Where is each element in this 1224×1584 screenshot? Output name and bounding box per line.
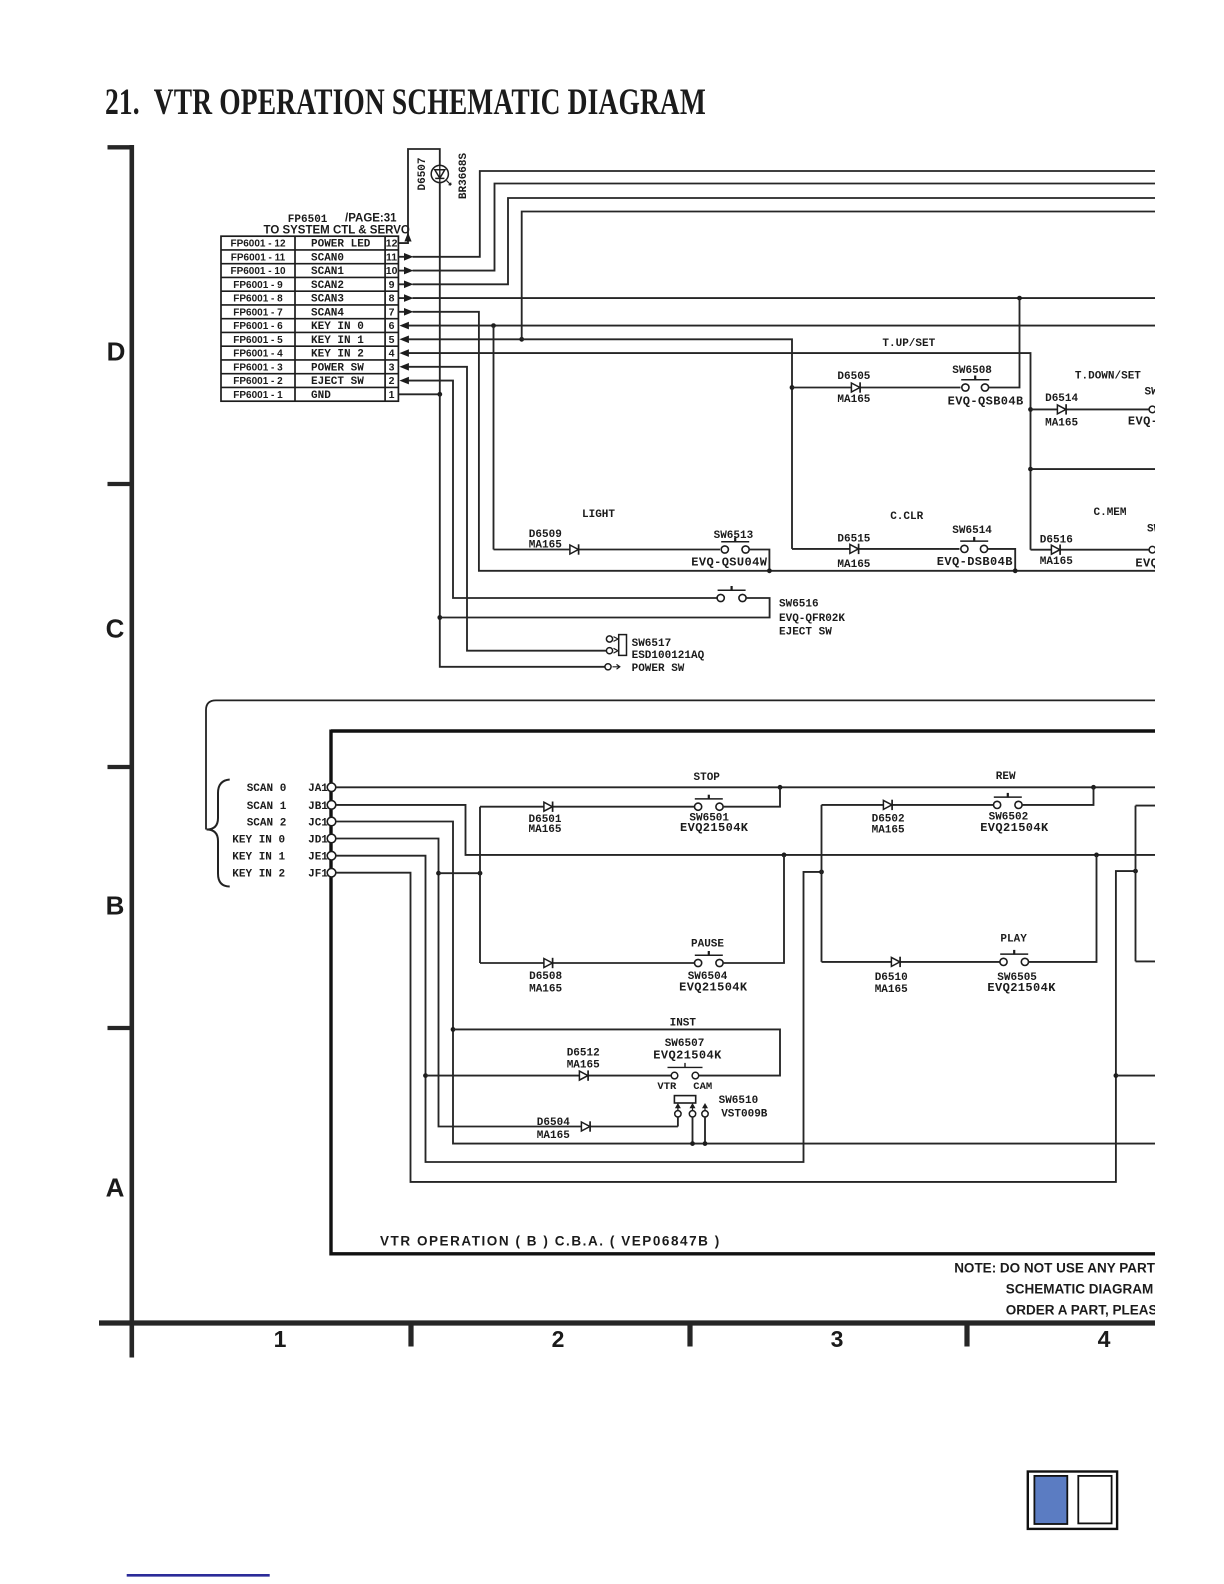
wire PAUSE row [480,962,695,964]
svg-text:BR3668S: BR3668S [458,153,470,200]
svg-text:POWER SW: POWER SW [632,663,685,675]
svg-text:JF1: JF1 [308,869,328,881]
wire C.MEM row [1031,549,1149,551]
switch SW6501 STOP [695,795,724,811]
svg-text:D6510: D6510 [875,972,908,984]
svg-text:SCAN0: SCAN0 [311,252,344,264]
svg-text:C: C [106,614,125,644]
wire KEY IN 1 to T.UP/SET and C.CLR [522,339,792,549]
junction KEY IN 2 / D6514 feed [1028,407,1033,412]
svg-text:REW: REW [996,771,1016,783]
SW6510 contact 3 [702,1111,708,1117]
svg-text:21. VTR OPERATION SCHEMATIC D: 21. VTR OPERATION SCHEMATIC DIAGRAM [105,82,706,123]
wire JD1 KEY IN 0 row [336,839,678,1127]
wire SW6510 c3 down to JC1 line [704,1117,706,1144]
svg-text:FP6001 - 10: FP6001 - 10 [230,266,285,277]
arrow out pin 9 [404,281,414,289]
wire SW6514 output to SCAN4 line [987,549,1015,571]
switch SW6502 REW [994,793,1023,809]
wire JB1 SCAN1 row [336,805,1155,855]
SW6517 bottom contact [606,648,612,654]
arrow in pin 6 [399,322,409,330]
wire INST row from JE1 [426,1075,672,1077]
svg-text:8: 8 [389,293,395,305]
wire SCAN1 net [413,184,1156,271]
svg-text:D6514: D6514 [1045,393,1078,405]
SW6517 top contact [606,636,612,642]
junction KEY IN 1 [519,337,524,342]
wire pin12 to LED anode [398,149,439,243]
svg-text:STOP: STOP [694,772,721,784]
svg-text:MA165: MA165 [567,1060,600,1072]
junction right column feed [1133,869,1138,874]
diode D6501 [544,802,553,812]
SW6510 contact arrow at x=692.5 [692,1105,694,1111]
wire SW6516 return to GND [440,598,770,618]
junction GND / LED cathode [437,392,442,397]
svg-text:MA165: MA165 [875,984,908,996]
wire SCAN0 net [413,171,1156,257]
LED D6507 BR3668S [431,165,451,185]
svg-text:FP6001 - 5: FP6001 - 5 [233,335,283,346]
margin top tick [108,145,135,149]
SW6510 contact arrow at x=705.0 [704,1105,706,1111]
pin 7 stub [398,311,404,313]
junction JB1 / SW6505 output [1094,853,1099,858]
wire LIGHT row [494,549,721,551]
switch SW6505 PLAY [1000,950,1029,966]
svg-text:SCHEMATIC DIAGRAM WH: SCHEMATIC DIAGRAM WH [1006,1282,1180,1297]
switch SW6508 T.UP/SET [961,376,989,392]
slide switch SW6510 body [674,1096,695,1103]
svg-text:MA165: MA165 [1040,556,1073,568]
svg-text:4: 4 [389,348,395,360]
wire STOP/PAUSE feed vertical [479,807,481,963]
svg-text:JC1: JC1 [308,817,328,829]
svg-text:ORDER A PART, PLEASE U: ORDER A PART, PLEASE U [1006,1303,1180,1318]
svg-text:3: 3 [389,361,395,373]
pin 8 stub [398,297,404,299]
svg-text:MA165: MA165 [837,559,870,571]
footer blue page square [1034,1476,1067,1524]
POWER SW contact [605,664,611,670]
svg-text:KEY IN 1: KEY IN 1 [232,852,285,864]
node JC1 [327,817,336,826]
svg-text:TO SYSTEM CTL & SERVO: TO SYSTEM CTL & SERVO [264,225,410,237]
svg-text:D6505: D6505 [837,371,870,383]
svg-text:1: 1 [389,389,395,401]
wire SW6513 output to SCAN4 line [749,550,770,571]
wire C.CLR row [792,548,960,550]
wire right column top row (clipped) [1136,805,1156,807]
svg-text:FP6001 - 3: FP6001 - 3 [233,362,283,373]
lower board thick box left edge [329,730,332,1256]
svg-text:T.DOWN/SET: T.DOWN/SET [1075,370,1141,382]
arrow out pin 7 [404,308,414,316]
svg-text:C.CLR: C.CLR [890,511,923,523]
node JA1 [327,783,336,792]
svg-text:EJECT SW: EJECT SW [311,376,364,388]
svg-text:4: 4 [1098,1326,1111,1352]
SW6510 contact arrow at x=677.9 [677,1105,679,1111]
junction JB1 / SW6504 output [782,853,787,858]
arrow in pin 2 [399,377,409,385]
svg-text:5: 5 [389,334,395,346]
diode D6515 [850,544,859,554]
svg-text:JA1: JA1 [308,783,328,795]
lower board thick box bottom edge [331,1252,1155,1255]
switch SW6516 EJECT [717,586,746,602]
diode D6502 [883,800,892,810]
svg-text:SW6514: SW6514 [952,525,992,537]
wire SW6505 output up to JB1 [1028,855,1096,962]
svg-text:D6502: D6502 [872,814,905,826]
wire SW6502 output up to JA1 [1022,787,1094,805]
wire pin 5 KEY IN 1 [409,338,522,340]
SW6510 contact 2 [689,1111,695,1117]
junction GND / EJECT return [437,615,442,620]
wire right column bottom row (clipped) [1136,960,1156,962]
junction SW6513 out / SCAN4 [767,568,772,573]
wire EJECT SW net to SW6516 [409,381,718,598]
svg-text:EVQ21504K: EVQ21504K [980,821,1049,835]
junction JE1 / D6512 feed [423,1073,428,1078]
svg-text:D: D [107,337,126,367]
svg-text:FP6001 - 11: FP6001 - 11 [231,252,286,263]
svg-text:EJECT SW: EJECT SW [779,626,832,638]
svg-text:SCAN 2: SCAN 2 [247,817,287,829]
svg-text:KEY IN 0: KEY IN 0 [232,834,285,846]
svg-text:SW6508: SW6508 [952,365,992,377]
svg-text:MA165: MA165 [529,824,562,836]
wire right column middle row (clipped) [1116,1075,1155,1077]
ruler tick 2-3 [687,1325,692,1347]
wire KEY IN 2 net [409,353,1031,550]
wire REW-PLAY feed vertical [821,805,823,962]
svg-text:JD1: JD1 [308,834,328,846]
svg-text:VST009B: VST009B [721,1108,768,1120]
svg-text:NOTE: DO NOT USE ANY PARTS: NOTE: DO NOT USE ANY PARTS [954,1261,1164,1276]
junction JD1 branch [436,871,441,876]
svg-text:D6507: D6507 [417,157,429,190]
wire KEY IN 1 top run [522,212,1155,340]
svg-text:EVQ21504K: EVQ21504K [987,981,1056,995]
margin tick B/C [108,765,130,769]
svg-text:EVQ21504K: EVQ21504K [679,981,748,995]
wire T.UP/SET row left [792,387,961,389]
svg-text:SCAN3: SCAN3 [311,294,344,306]
pin 10 stub [398,270,404,272]
svg-text:SCAN4: SCAN4 [311,307,344,319]
ruler tick 1-2 [408,1325,413,1347]
switch SW6511 left contact (clipped) [1149,546,1156,553]
svg-text:EVQ-QSB04B: EVQ-QSB04B [948,394,1024,408]
diode D6510 [891,957,900,967]
svg-text:11: 11 [386,251,397,263]
wire KEY IN 0 vertical to LIGHT [493,326,495,550]
junction JF1 feed / right column row [1114,1073,1119,1078]
wire SCAN3 net [413,297,1156,299]
svg-text:KEY IN 1: KEY IN 1 [311,335,364,347]
pin 11 stub [398,256,404,258]
wire PLAY row [822,961,1001,963]
wire STOP row [480,806,695,808]
svg-text:VTR OPERATION ( B ) C.B.A.: VTR OPERATION ( B ) C.B.A. ( VEP06847B ) [380,1234,721,1249]
svg-text:JE1: JE1 [308,852,328,864]
footer underline mark [127,1574,270,1577]
wire JF1 KEY IN 2 row [336,871,1136,1182]
pin 9 stub [398,283,404,285]
svg-text:1: 1 [274,1326,287,1352]
svg-text:10: 10 [386,265,398,277]
svg-text:D6504: D6504 [537,1117,570,1129]
diode D6509 [570,544,579,554]
wire INST loop from JC1 to CAM contact [453,1029,780,1075]
svg-text:SW6513: SW6513 [714,530,754,542]
svg-text:12: 12 [386,238,398,250]
svg-text:FP6001 - 4: FP6001 - 4 [233,349,283,360]
junction JE1 / REW-PLAY feed [819,870,824,875]
svg-text:FP6001 - 9: FP6001 - 9 [233,280,283,291]
svg-text:KEY IN 0: KEY IN 0 [311,321,364,333]
svg-text:SCAN 1: SCAN 1 [247,801,287,813]
node JB1 [327,801,336,810]
svg-text:C.MEM: C.MEM [1094,507,1127,519]
wire right column feed vertical [1135,806,1137,962]
svg-text:D6516: D6516 [1040,535,1073,547]
wire JA1 SCAN0 row [336,786,1155,788]
svg-text:JB1: JB1 [308,801,328,813]
arrow in pin 3 [399,363,409,371]
node JD1 [327,834,336,843]
switch SW6514 C.CLR [960,537,988,553]
wire SW6508 output up to SCAN3 [988,298,1019,387]
lower board thick box top edge [331,729,1155,732]
wire GND bus down to POWER SW contact [440,394,605,667]
arrow out pin 11 [404,253,414,261]
svg-text:PLAY: PLAY [1000,933,1027,945]
pin 12 up arrow [404,233,411,242]
svg-text:SW6516: SW6516 [779,599,819,611]
arrow in pin 4 [399,349,409,357]
svg-text:PAUSE: PAUSE [691,939,724,951]
SW6507 bar [668,1066,703,1068]
svg-text:D6508: D6508 [529,971,562,983]
diode D6504 [581,1121,590,1131]
svg-text:9: 9 [389,279,395,291]
arrow out pin 10 [404,267,414,275]
node JE1 [327,851,336,860]
svg-text:KEY IN 2: KEY IN 2 [311,349,364,361]
svg-text:GND: GND [311,390,331,402]
svg-text:LIGHT: LIGHT [582,509,615,521]
svg-text:MA165: MA165 [1045,418,1078,430]
brace grouping key rows [207,780,230,887]
svg-text:MA165: MA165 [529,983,562,995]
svg-text:EVQ-QSU04W: EVQ-QSU04W [691,555,767,569]
SW6510 contact 1 [675,1111,681,1117]
switch SW6504 PAUSE [695,951,724,967]
junction KEY IN 1 / D6505 feed [790,385,795,390]
svg-text:FP6001 - 6: FP6001 - 6 [233,321,283,332]
svg-text:EVQ21504K: EVQ21504K [653,1048,722,1062]
wire JC1 SCAN2 row [336,822,1155,1144]
svg-text:ESD100121AQ: ESD100121AQ [632,650,705,662]
wire REW row [822,804,994,806]
svg-text:T.UP/SET: T.UP/SET [882,338,935,350]
svg-text:D6515: D6515 [837,534,870,546]
svg-text:FP6001 - 8: FP6001 - 8 [233,294,283,305]
svg-text:MA165: MA165 [872,825,905,837]
wire SW6510 c1 down to D6504 row [677,1117,679,1127]
wire SW6510 c2 down to JC1 line [692,1117,694,1144]
wire POWER SW net to SW6517 [409,367,607,651]
svg-text:B: B [106,891,125,921]
junction JA1 / SW6502 output [1091,785,1096,790]
diode D6512 [579,1070,588,1080]
junction SCAN3 / SW6508 output [1017,296,1022,301]
svg-text:D6512: D6512 [567,1047,600,1059]
wire pin 1 GND [398,393,439,395]
svg-text:FP6001 - 1: FP6001 - 1 [233,390,283,401]
bottom ruler line [99,1320,1155,1325]
bus wire with rounded corner from brace [206,700,1155,829]
margin tick C/D [108,482,130,486]
junction c2 / JC1 [690,1141,695,1146]
wire SCAN4 net long line [413,312,1156,571]
arrow in pin 5 [399,336,409,344]
margin tick A/B [108,1026,130,1030]
arrow out pin 8 [404,294,414,302]
svg-text:MA165: MA165 [537,1130,570,1142]
wire SW6501 output up to JA1 [723,787,780,806]
svg-text:7: 7 [389,306,395,318]
svg-text:MA165: MA165 [837,394,870,406]
wire T.DOWN/SET row [1031,408,1149,410]
junction JA1 / SW6501 output [778,785,783,790]
svg-text:SCAN2: SCAN2 [311,280,344,292]
LED cathode wire down to GND net [439,182,441,394]
svg-text:2: 2 [389,375,395,387]
junction c3 / JC1 [703,1141,708,1146]
svg-text:6: 6 [389,320,395,332]
svg-text:FP6001 - 2: FP6001 - 2 [233,376,283,387]
svg-text:2: 2 [552,1326,565,1352]
junction stub / STOP-PAUSE feed [478,871,483,876]
switch SW6507 CAM contact [692,1072,699,1079]
svg-text:POWER LED: POWER LED [311,239,371,251]
svg-text:SW6517: SW6517 [632,638,672,650]
svg-text:EVQ-QFR02K: EVQ-QFR02K [779,613,845,625]
svg-text:/PAGE:31: /PAGE:31 [345,213,397,225]
connector table FP6001 grid [221,236,398,401]
junction JC1 / INST cell [451,1027,456,1032]
switch SW6513 LIGHT [721,538,749,554]
left margin vertical rule [130,145,135,1358]
svg-text:SW6510: SW6510 [719,1095,759,1107]
svg-text:SCAN1: SCAN1 [311,266,344,278]
svg-text:MA165: MA165 [529,540,562,552]
diode D6505 [851,382,860,392]
junction KEY IN 2 branch [1028,467,1033,472]
switch SW6517 body [619,635,627,656]
wire KEY IN 0 net [409,325,1156,327]
wire JE1 KEY IN 1 row [336,856,822,1162]
svg-text:KEY IN 2: KEY IN 2 [232,869,285,881]
wire SW6504 output up to JB1 [723,855,784,963]
diode D6514 [1057,404,1066,414]
svg-text:3: 3 [831,1326,844,1352]
wire SCAN2 net [413,198,1156,284]
footer white page square [1078,1476,1111,1524]
svg-text:VTR: VTR [657,1081,677,1093]
switch SW6509 left contact (clipped) [1149,406,1156,413]
node JF1 [327,868,336,877]
svg-text:A: A [106,1173,125,1203]
footer navigation box [1028,1472,1117,1529]
switch SW6507 VTR contact [671,1072,678,1079]
svg-text:EVQ21504K: EVQ21504K [680,821,749,835]
junction SW6514 out / SCAN4 [1013,568,1018,573]
ruler tick 3-4 [964,1325,969,1347]
wire KEY IN 2 off-page branch [1031,468,1156,470]
svg-text:SCAN 0: SCAN 0 [247,783,287,795]
svg-text:CAM: CAM [693,1081,712,1093]
svg-text:POWER SW: POWER SW [311,362,364,374]
diode D6516 [1051,545,1060,555]
wire JD1 stub to STOP/PAUSE feed [439,872,481,874]
diode D6508 [544,958,553,968]
svg-text:FP6001 - 12: FP6001 - 12 [230,239,285,250]
svg-text:FP6001 - 7: FP6001 - 7 [233,307,283,318]
svg-text:EVQ-DSB04B: EVQ-DSB04B [937,555,1013,569]
junction KEY IN 0 branch [491,323,496,328]
svg-text:INST: INST [670,1018,697,1030]
